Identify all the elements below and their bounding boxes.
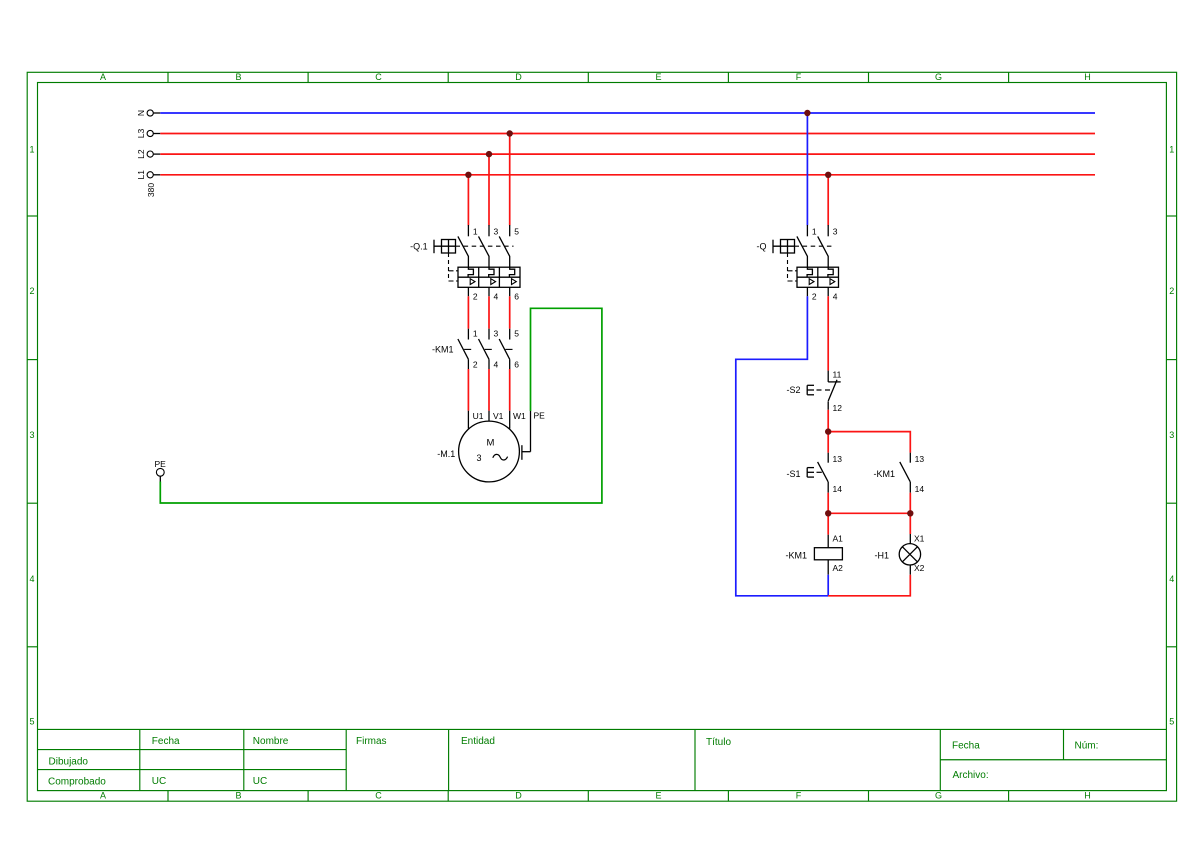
svg-text:H: H [1084,791,1091,801]
wire Q.1 to KM1 [467,296,469,328]
svg-text:4: 4 [1169,574,1174,584]
junction dot above coil [825,510,831,516]
svg-text:L3: L3 [136,129,146,139]
wire L2 to Q.1 [488,154,490,225]
wire to coil A1 [827,513,829,534]
Q.1 pole pin 2 [468,287,478,301]
svg-text:H: H [1084,72,1091,82]
Q.1 mechanical linkage dashed [456,245,514,247]
Q.1 mechanism square [434,240,456,254]
Q mechanical linkage dashed [795,245,833,247]
Q pole pin 2 [807,287,817,301]
KM1 pole pin 1 [468,329,478,340]
svg-text:5: 5 [1169,717,1174,727]
svg-text:A: A [100,791,106,801]
KM1 aux NO contact blade [900,462,911,482]
Q.1 thermal release [509,267,514,277]
wire rail L2 [160,153,1095,155]
svg-text:N: N [136,110,146,116]
svg-text:C: C [375,72,382,82]
motor PE terminal bar [522,411,531,460]
svg-text:2: 2 [473,291,478,301]
wire A2 to neutral rail [827,575,829,596]
svg-text:Fecha: Fecha [952,740,980,751]
svg-text:-KM1: -KM1 [785,551,807,561]
Q pole pin 1 [807,225,817,236]
svg-text:Dibujado: Dibujado [49,756,89,767]
wire junction to S1 [827,432,829,453]
svg-text:14: 14 [833,484,843,494]
Q pole contact blade [818,236,829,267]
svg-text:E: E [655,72,661,82]
svg-text:6: 6 [514,291,519,301]
svg-text:Archivo:: Archivo: [953,770,989,781]
svg-text:14: 14 [915,484,925,494]
KM1 pole pin 2 [468,359,478,369]
svg-text:X2: X2 [914,563,925,573]
junction dot on L1 right [825,172,831,178]
Q thermal release [828,267,833,277]
svg-text:-Q: -Q [757,242,767,252]
wire junction bar [828,512,910,514]
svg-text:L1: L1 [136,170,146,180]
Q.1 magnetic release [470,279,475,285]
coil KM1 box [814,548,842,560]
terminal L2 [147,151,153,157]
coil pin A2 [828,560,843,575]
svg-text:-Q.1: -Q.1 [410,242,428,252]
S1 actuator [807,468,822,478]
Q.1 pole pin 6 [510,287,520,301]
svg-text:12: 12 [833,403,843,413]
KM1 linkage tick [505,348,512,350]
svg-text:Núm:: Núm: [1075,740,1099,751]
svg-text:C: C [375,791,382,801]
svg-text:U1: U1 [473,411,484,421]
svg-text:5: 5 [514,329,519,339]
S2 pin 12 [828,401,842,413]
wire KM1 to motor [467,369,469,411]
svg-text:11: 11 [833,369,842,379]
motor tilde [493,454,508,460]
wire S1 to junction2 [827,493,829,514]
KM1 linkage tick [485,348,492,350]
svg-text:2: 2 [473,360,478,370]
KM1 pole pin 5 [510,329,520,340]
svg-text:3: 3 [494,329,499,339]
S2 NC contact [828,380,841,401]
svg-text:3: 3 [494,226,499,236]
svg-text:4: 4 [494,360,499,370]
KM1 pole pin 3 [489,329,499,340]
Q pole pin 4 [828,287,838,301]
svg-text:3: 3 [29,430,34,440]
KM1 aux pin 13 [910,453,924,464]
svg-text:Nombre: Nombre [253,736,289,747]
motor terminal V1 [489,411,504,422]
svg-text:D: D [515,72,522,82]
wire rail L3 [160,133,1095,135]
junction dot on L1 [465,172,471,178]
terminal PE [155,459,167,482]
terminal L1 [147,172,153,178]
KM1 pole pin 4 [489,359,499,369]
wire KM1 to motor [488,369,490,411]
lamp pin X1 [910,533,924,543]
Q mechanism square [773,240,795,254]
svg-text:2: 2 [812,291,817,301]
svg-text:Entidad: Entidad [461,736,495,747]
KM1 aux pin 14 [910,482,924,494]
svg-text:380: 380 [146,183,156,197]
svg-text:A: A [100,72,106,82]
svg-text:-KM1: -KM1 [873,469,895,479]
Q.1 magnetic release [491,279,496,285]
terminal N [147,110,153,116]
junction dot below S2 [825,428,831,434]
svg-text:W1: W1 [513,411,526,421]
S1 NO contact blade [818,462,829,482]
svg-text:-S2: -S2 [786,385,800,395]
svg-text:X1: X1 [914,533,925,543]
S2 actuator [807,385,831,395]
motor terminal U1 [468,411,483,429]
wire neutral from Q down-left to bottom rail [736,296,828,596]
KM1 linkage tick [464,348,471,350]
wire L3 to Q.1 [509,134,511,226]
KM1 pole contact blade [499,339,510,359]
motor M.1 circle [459,421,520,482]
wire KM1 aux to junction3 [909,493,911,514]
Q trip unit box [797,267,839,287]
Q.1 pole pin 3 [489,225,499,236]
wire rail N [160,112,1095,114]
Q magnetic release [809,279,814,285]
junction dot on N [804,110,810,116]
svg-text:1: 1 [473,329,478,339]
Q magnetic release [830,279,835,285]
svg-text:5: 5 [29,717,34,727]
Q pole contact blade [797,236,808,267]
Q.1 pole pin 4 [489,287,499,301]
Q.1 pole pin 1 [468,225,478,236]
svg-text:F: F [796,791,802,801]
svg-text:-S1: -S1 [786,469,800,479]
S1 pin 13 [828,453,842,464]
svg-text:3: 3 [476,453,481,463]
svg-text:Fecha: Fecha [152,736,180,747]
wire S2 to junction [827,410,829,432]
KM1 pole contact blade [479,339,490,359]
svg-text:13: 13 [915,454,925,464]
Q.1 thermal release [489,267,494,277]
svg-text:-KM1: -KM1 [432,345,454,355]
svg-text:1: 1 [1169,145,1174,155]
wire KM1 to motor [509,369,511,411]
motor terminal W1 [510,411,526,429]
Q.1 pole contact blade [499,236,510,267]
Q pole pin 3 [828,225,838,236]
svg-text:G: G [935,72,942,82]
svg-text:UC: UC [152,776,166,787]
wire branch to KM1 aux [828,432,910,453]
svg-text:A2: A2 [833,563,844,573]
svg-text:-M.1: -M.1 [437,449,455,459]
svg-text:3: 3 [1169,430,1174,440]
Q.1 magnetic release [512,279,517,285]
svg-text:5: 5 [514,226,519,236]
svg-text:13: 13 [833,454,843,464]
Q.1 pole contact blade [479,236,490,267]
coil pin A1 [828,533,843,547]
svg-text:2: 2 [29,286,34,296]
wire to lamp X1 [909,513,911,534]
svg-text:UC: UC [253,776,267,787]
svg-text:B: B [235,72,241,82]
svg-text:6: 6 [514,360,519,370]
svg-text:E: E [655,791,661,801]
svg-text:L2: L2 [136,149,146,159]
svg-text:Comprobado: Comprobado [48,776,106,787]
junction dot on L3 [507,130,513,136]
svg-text:4: 4 [29,574,34,584]
lamp H1 circle [899,544,920,565]
lamp pin X2 [910,563,924,575]
svg-text:-H1: -H1 [874,551,889,561]
svg-text:D: D [515,791,522,801]
wire L1 to Q.1 [467,175,469,226]
svg-text:B: B [235,791,241,801]
wire L1 to Q [827,175,829,226]
svg-text:1: 1 [473,226,478,236]
title block [38,728,1167,730]
svg-text:Firmas: Firmas [356,736,387,747]
Q.1 pole pin 5 [510,225,520,236]
wire L1 from Q to S2 [827,296,829,370]
svg-text:PE: PE [155,459,167,469]
svg-text:1: 1 [812,226,817,236]
wire Q.1 to KM1 [509,296,511,328]
S2 pin 11 [828,369,841,382]
wire N to Q [806,113,808,225]
svg-text:F: F [796,72,802,82]
wire Q.1 to KM1 [488,296,490,328]
Q thermal release [807,267,812,277]
svg-text:1: 1 [29,145,34,155]
svg-text:G: G [935,791,942,801]
S1 pin 14 [828,482,842,494]
svg-text:4: 4 [494,291,499,301]
svg-text:A1: A1 [833,533,844,543]
Q.1 pole contact blade [458,236,469,267]
Q trip linkage dashed [788,253,798,281]
svg-text:PE: PE [534,410,546,420]
svg-text:V1: V1 [493,411,504,421]
Q.1 thermal release [468,267,473,277]
svg-text:4: 4 [833,291,838,301]
KM1 pole contact blade [458,339,469,359]
svg-text:M: M [486,437,494,448]
wire PE green loop [160,308,602,503]
svg-text:Título: Título [706,737,731,748]
svg-text:3: 3 [833,226,838,236]
wire rail L1 [160,174,1095,176]
junction dot on L2 [486,151,492,157]
terminal L3 [147,130,153,136]
border frame inner [38,83,1167,791]
KM1 pole pin 6 [510,359,520,369]
wire X2 to bottom rail [828,575,910,596]
junction dot above lamp [907,510,913,516]
Q.1 trip unit box [458,267,520,287]
svg-text:2: 2 [1169,286,1174,296]
Q.1 trip linkage dashed [449,253,459,281]
